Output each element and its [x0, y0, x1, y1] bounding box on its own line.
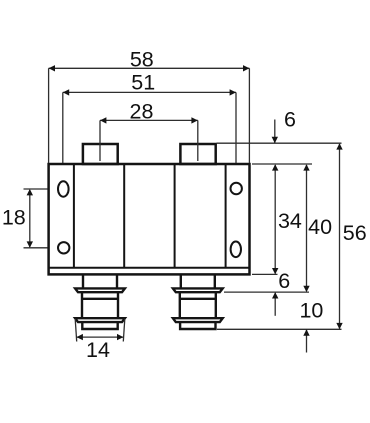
svg-text:34: 34: [278, 209, 302, 233]
dim 56 line: [339, 144, 341, 329]
dim 14 arrows: [77, 334, 83, 340]
dim 18 bottom extension: [24, 247, 48, 249]
right barb neck right wall: [214, 274, 216, 288]
dim 18 line: [29, 190, 31, 247]
right top stub: [180, 144, 215, 164]
dim 6 mid arrow tail: [274, 293, 276, 316]
dim 18 arrows: [27, 189, 33, 195]
dim 51 left extension: [62, 92, 64, 163]
svg-text:14: 14: [86, 338, 110, 362]
interior partition left: [73, 164, 75, 268]
right barb body right wall: [215, 292, 217, 318]
dim 28 line: [100, 119, 198, 121]
dim 10 arrow tail: [306, 330, 308, 353]
left slot hole: [58, 181, 69, 196]
dim 14 left extension: [75, 319, 77, 342]
dim 58 arrows: [49, 65, 55, 71]
svg-text:28: 28: [130, 99, 154, 123]
dim 34 arrows: [272, 164, 278, 170]
left barb body right wall: [117, 292, 119, 318]
dim 6 top arrow tail: [274, 120, 276, 143]
dim 28 arrows: [100, 117, 106, 123]
dimension lines: [24, 68, 342, 352]
dim 40 arrows: [303, 164, 309, 170]
right barb neck left wall: [180, 274, 182, 288]
dim 40 line: [306, 165, 308, 291]
stub top extension: [217, 142, 342, 144]
dim 14 right extension: [123, 319, 125, 342]
left barb lower flange: [75, 318, 125, 322]
interior partition mid-right: [174, 164, 176, 268]
right barb ring line: [180, 298, 216, 300]
svg-text:18: 18: [2, 206, 26, 230]
right round hole: [231, 183, 242, 194]
left round hole: [58, 242, 69, 253]
left barb neck left wall: [82, 274, 84, 288]
svg-text:40: 40: [308, 215, 332, 239]
right barb body left wall: [179, 292, 181, 318]
left top stub: [83, 144, 118, 164]
svg-text:6: 6: [278, 269, 290, 293]
svg-text:58: 58: [130, 47, 154, 71]
dim 34 line: [274, 165, 276, 274]
barb bottom extension: [217, 328, 342, 330]
dim 51 line: [63, 91, 236, 93]
left barb neck right wall: [116, 274, 118, 288]
body top extension right: [252, 163, 312, 165]
dim 28 left extension: [99, 120, 101, 161]
interior partition mid-left: [123, 164, 125, 268]
right barb tip: [180, 322, 215, 329]
dim 51 arrows: [63, 89, 69, 95]
dim 6 top arrow: [272, 137, 278, 143]
manifold body outline: [49, 164, 250, 274]
dim 51 right extension: [235, 92, 237, 163]
flange extension line: [224, 291, 309, 293]
right barb upper flange: [173, 288, 223, 292]
svg-text:10: 10: [299, 299, 323, 323]
right slot hole: [231, 242, 241, 258]
interior partition right: [225, 164, 227, 268]
arrowheads: [27, 65, 343, 340]
right barb lower flange: [173, 318, 223, 322]
svg-text:51: 51: [131, 70, 155, 94]
dim 58 left extension: [48, 68, 50, 163]
dim 10 arrow: [303, 329, 309, 335]
base plate line: [49, 267, 250, 269]
dim 28 right extension: [197, 120, 199, 161]
svg-text:6: 6: [284, 108, 296, 132]
left barb ring line: [82, 298, 118, 300]
dim 18 top extension: [24, 188, 48, 190]
dim 6 mid arrow: [272, 292, 278, 298]
left barb upper flange: [75, 288, 125, 292]
dim 14 line: [77, 336, 124, 338]
left barb body left wall: [81, 292, 83, 318]
base bottom extension: [252, 273, 278, 275]
dim 58 right extension: [248, 68, 250, 163]
left barb tip: [82, 322, 117, 329]
dim 56 arrows: [336, 143, 342, 149]
dim 58 line: [49, 67, 250, 69]
svg-text:56: 56: [343, 221, 367, 245]
